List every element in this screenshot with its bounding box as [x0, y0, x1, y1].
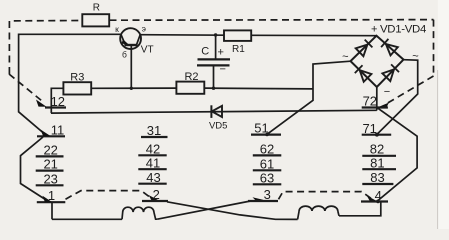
diode VD1 top-left — [356, 40, 373, 57]
terminal 82 — [362, 155, 396, 157]
svg-text:R1: R1 — [232, 44, 245, 55]
svg-text:VD1-VD4: VD1-VD4 — [380, 23, 426, 35]
terminal 1 — [37, 201, 66, 203]
terminal 4 — [361, 200, 388, 202]
terminal 31 — [141, 136, 168, 138]
svg-text:22: 22 — [43, 143, 57, 158]
left wall 11 to 1 — [21, 137, 49, 202]
svg-text:+: + — [217, 46, 223, 58]
svg-text:R: R — [93, 3, 100, 14]
wire coil1 to 3 — [157, 201, 250, 219]
transistor VT — [120, 28, 141, 49]
paper margin right — [438, 0, 449, 229]
svg-text:R2: R2 — [184, 71, 198, 83]
resistor R1 — [224, 30, 251, 41]
wire emitter to bridge top — [140, 34, 224, 37]
terminal 61 — [253, 169, 281, 171]
terminal 72 — [362, 106, 388, 108]
terminal 3 — [248, 200, 278, 202]
svg-text:62: 62 — [260, 142, 274, 157]
terminal 63 — [253, 183, 281, 185]
svg-text:11: 11 — [51, 123, 65, 138]
terminal 41 — [138, 168, 166, 170]
arrow at 1 — [43, 196, 53, 202]
dashed link 3-4 — [279, 192, 372, 200]
resistor R — [82, 14, 109, 26]
svg-text:б: б — [122, 50, 127, 60]
arrow at 3 — [253, 197, 264, 201]
terminal 12 — [45, 106, 66, 108]
arrow at 12 — [36, 100, 47, 107]
wire bridge bottom to 72 — [376, 87, 378, 110]
terminal 22 — [36, 155, 64, 157]
dashed border right vertical — [433, 20, 435, 76]
svg-text:2: 2 — [153, 187, 160, 202]
bridge diamond — [351, 36, 404, 87]
arrow at 71 — [375, 133, 379, 137]
terminal 81 — [362, 168, 396, 170]
terminal 51 — [251, 134, 281, 136]
terminal 11 — [37, 135, 65, 137]
node 4 lead — [339, 202, 381, 216]
terminal 43 — [138, 183, 166, 185]
node 1 lead — [51, 202, 53, 219]
svg-text:71: 71 — [362, 121, 376, 136]
svg-text:−: − — [384, 86, 390, 98]
dashed diagonal to 12 — [9, 74, 42, 101]
wire R1 to bridge — [251, 34, 376, 36]
terminal 21 — [36, 170, 64, 172]
svg-text:к: к — [115, 24, 119, 34]
svg-text:C: C — [201, 45, 209, 57]
terminal 62 — [253, 154, 281, 156]
svg-text:VD5: VD5 — [209, 121, 227, 132]
svg-text:61: 61 — [260, 156, 274, 171]
dashed diagonal to 72 — [386, 76, 434, 104]
stator coil L1 — [122, 207, 157, 219]
diode VD5 — [211, 105, 222, 118]
svg-text:23: 23 — [43, 171, 57, 186]
svg-text:12: 12 — [51, 94, 65, 109]
terminal 71 — [362, 134, 392, 136]
svg-text:VT: VT — [141, 45, 154, 56]
svg-text:63: 63 — [260, 170, 274, 185]
terminal 2 — [142, 200, 168, 202]
wire 72 to 4 — [377, 108, 417, 201]
terminal 83 — [362, 183, 393, 185]
svg-text:41: 41 — [146, 155, 160, 170]
svg-text:э: э — [142, 24, 146, 34]
capacitor C — [197, 33, 230, 90]
svg-text:+: + — [371, 23, 377, 35]
bottom rail left — [52, 218, 122, 220]
svg-text:R3: R3 — [70, 72, 84, 84]
svg-text:83: 83 — [370, 170, 384, 185]
arrow at 4 — [367, 196, 377, 202]
bus 12 to 72 — [51, 110, 377, 113]
stator coil L2 — [298, 206, 339, 219]
wire 2 to coil2 — [167, 202, 298, 220]
terminal 23 — [36, 184, 64, 186]
wire bridge right to 71 — [377, 60, 418, 135]
svg-text:51: 51 — [254, 121, 268, 136]
svg-text:72: 72 — [363, 94, 377, 109]
transistor base lead — [130, 45, 132, 88]
dashed border top-left — [9, 21, 82, 75]
svg-text:−: − — [219, 64, 225, 76]
divider line R3-R2 — [51, 88, 63, 113]
svg-text:43: 43 — [146, 170, 160, 185]
svg-text:81: 81 — [370, 155, 384, 170]
svg-text:31: 31 — [147, 123, 161, 138]
arrow at 11 — [41, 130, 51, 137]
resistor R3 — [63, 82, 91, 94]
dashed link 1-2 — [66, 191, 152, 200]
diode VD3 bottom-left — [355, 65, 372, 82]
svg-text:21: 21 — [43, 157, 57, 172]
resistor R2 — [176, 82, 204, 94]
svg-text:3: 3 — [264, 187, 271, 202]
terminal 42 — [138, 154, 166, 156]
diode VD4 bottom-right — [382, 64, 399, 81]
arrow at 2 — [149, 195, 160, 201]
wire bridge left to 51 — [267, 61, 351, 134]
diode VD2 top-right — [381, 39, 398, 56]
svg-text:42: 42 — [146, 141, 160, 156]
dashed border top-right — [110, 19, 434, 22]
wire collector left — [19, 34, 121, 136]
arrow at 72 — [378, 103, 389, 109]
